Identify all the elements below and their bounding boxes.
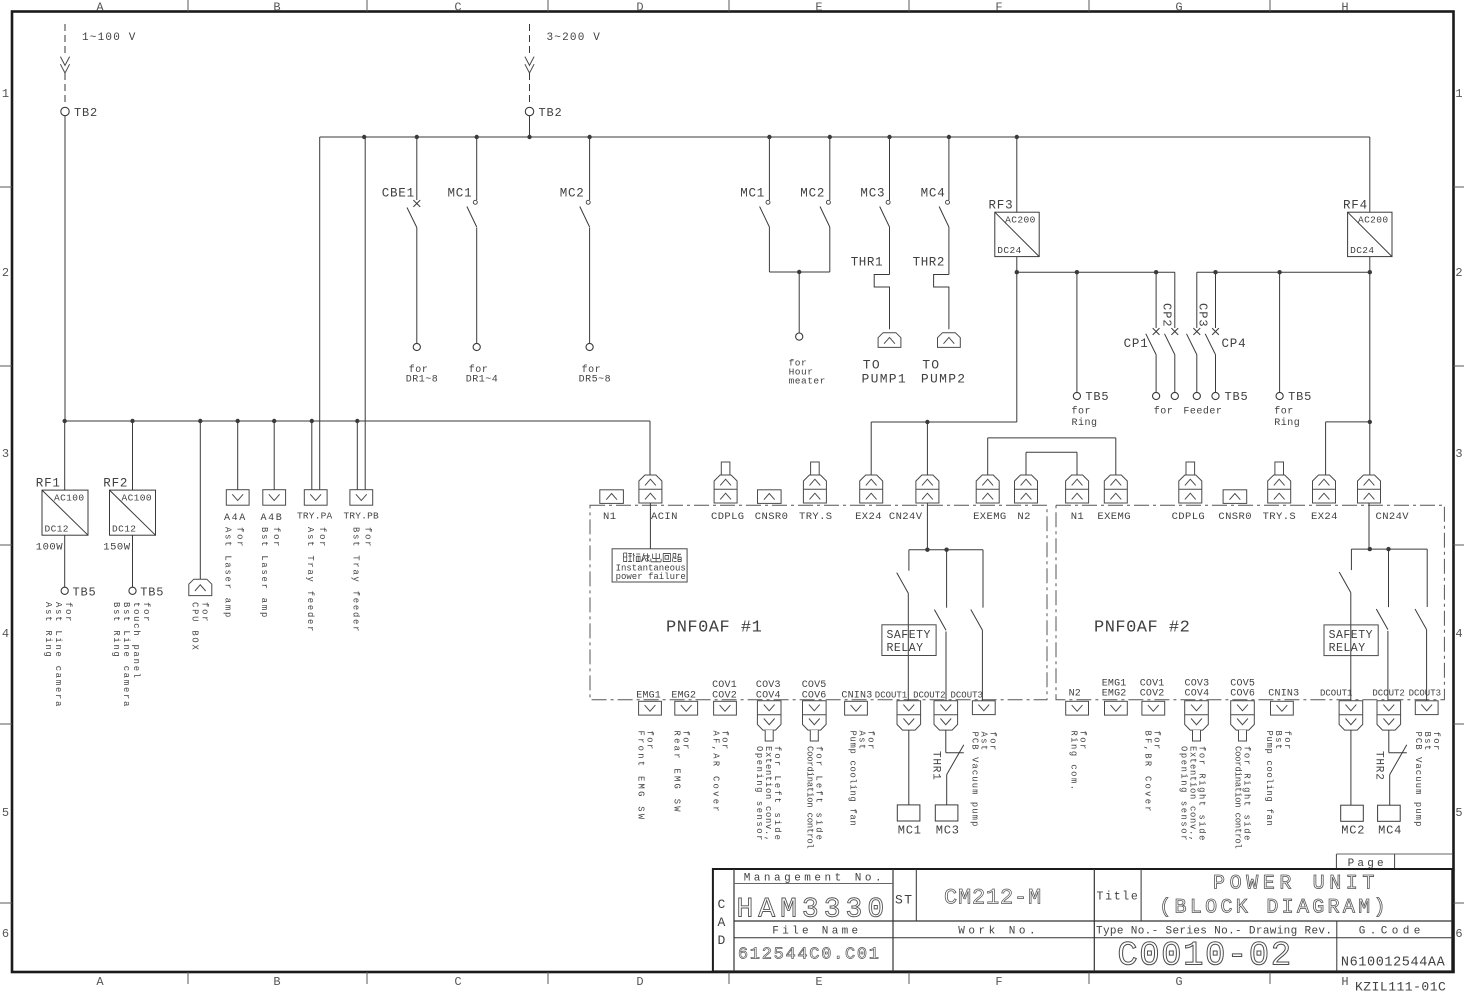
svg-text:MC1: MC1 xyxy=(740,186,765,200)
svg-text:PCB Vacuum pump: PCB Vacuum pump xyxy=(1413,732,1423,828)
svg-text:3~200 V: 3~200 V xyxy=(547,32,602,44)
svg-text:RELAY: RELAY xyxy=(887,642,924,655)
svg-text:DR5~8: DR5~8 xyxy=(579,375,612,386)
svg-text:for: for xyxy=(200,602,210,623)
connector EMG1/EMG2 (PNF#2) xyxy=(1102,678,1128,715)
svg-text:TRY.PB: TRY.PB xyxy=(344,511,380,522)
svg-text:B: B xyxy=(273,1,280,15)
svg-text:COV4: COV4 xyxy=(1185,689,1210,700)
svg-text:F: F xyxy=(995,975,1002,989)
svg-text:THR1: THR1 xyxy=(851,256,883,270)
wire RF4 output down to CN24V xyxy=(1369,257,1371,475)
wire RF3 to EX24/CN24V of PNF0AF#1 xyxy=(871,420,1017,550)
connector A4B for Bst Laser amp xyxy=(259,421,286,619)
wire CN24V internal bus (PNF#2) xyxy=(1351,503,1427,551)
breaker CP2 xyxy=(1160,272,1179,399)
svg-text:150W: 150W xyxy=(103,542,130,554)
svg-text:TB5: TB5 xyxy=(1225,390,1249,404)
svg-text:COV2: COV2 xyxy=(712,690,737,701)
svg-text:for: for xyxy=(317,527,327,548)
svg-text:4: 4 xyxy=(2,627,9,641)
connector N1 (PNF#2) xyxy=(1066,475,1089,523)
svg-text:DCOUT2: DCOUT2 xyxy=(1372,689,1404,699)
svg-text:EX24: EX24 xyxy=(1311,511,1338,523)
svg-text:Work No.: Work No. xyxy=(958,926,1039,938)
connector EMG2 (PNF#1) xyxy=(671,690,697,814)
svg-text:DR1~8: DR1~8 xyxy=(406,375,439,386)
svg-text:100W: 100W xyxy=(36,542,63,554)
connector CNSR0 (PNF0AF#1) xyxy=(755,490,789,523)
wire EXEMG bridge between PNF boxes xyxy=(988,438,1116,475)
svg-text:Page: Page xyxy=(1348,858,1387,870)
svg-text:E: E xyxy=(815,975,822,989)
svg-text:TB5: TB5 xyxy=(140,585,164,599)
value C0010-02 xyxy=(1117,938,1292,976)
svg-text:CP3: CP3 xyxy=(1195,303,1209,328)
svg-text:PUMP2: PUMP2 xyxy=(921,371,967,386)
label Title xyxy=(1097,891,1140,904)
svg-text:G: G xyxy=(1175,975,1182,989)
svg-text:Coordination control: Coordination control xyxy=(1233,746,1243,849)
svg-text:PNF0AF #1: PNF0AF #1 xyxy=(666,619,762,638)
svg-text:D: D xyxy=(636,975,643,989)
safety relay contact 1 (PNF#1) to DCOUT1 xyxy=(897,550,909,701)
svg-text:MC2: MC2 xyxy=(800,186,825,200)
svg-text:CN24V: CN24V xyxy=(1376,511,1410,523)
svg-text:CP1: CP1 xyxy=(1124,337,1149,351)
connector COV3/COV4 (PNF#2) xyxy=(1179,678,1210,842)
connector ACIN (PNF0AF#1) xyxy=(639,475,678,523)
svg-text:RF1: RF1 xyxy=(36,477,61,491)
connector DCOUT2 (PNF#1) xyxy=(913,690,958,730)
svg-text:DC12: DC12 xyxy=(112,524,136,535)
label for CPU BOX xyxy=(190,602,210,652)
svg-text:CP4: CP4 xyxy=(1222,337,1247,351)
svg-text:5: 5 xyxy=(2,806,9,820)
wire RF1 to TB5 + terminal xyxy=(61,535,96,599)
svg-text:A4B: A4B xyxy=(261,513,284,524)
svg-text:MC3: MC3 xyxy=(860,186,885,200)
connector DCOUT3 (PNF#2) xyxy=(1409,689,1441,828)
svg-text:C0010-02: C0010-02 xyxy=(1117,938,1292,976)
svg-text:TRY.S: TRY.S xyxy=(799,511,833,523)
svg-text:MC1: MC1 xyxy=(898,824,922,838)
svg-text:Front EMG SW: Front EMG SW xyxy=(636,731,646,822)
svg-text:for: for xyxy=(235,527,245,548)
label for touch panel / Bst Line camera / Bst Ring xyxy=(111,602,151,708)
connector DCOUT3 (PNF#1) xyxy=(951,690,998,827)
label TB5 for Feeder xyxy=(1154,390,1249,417)
svg-text:MC2: MC2 xyxy=(1341,824,1365,838)
svg-text:D: D xyxy=(718,933,726,948)
svg-text:DCOUT1: DCOUT1 xyxy=(1320,689,1352,699)
connector N2 (PNF0AF#1) xyxy=(1015,475,1038,523)
svg-text:F: F xyxy=(995,1,1002,15)
connector EXEMG (PNF0AF#1) xyxy=(973,475,1007,523)
svg-text:N1: N1 xyxy=(603,511,616,523)
svg-text:N1: N1 xyxy=(1071,511,1084,523)
svg-text:N2: N2 xyxy=(1017,511,1030,523)
terminal TB5 for Ring (right) xyxy=(1274,272,1312,429)
svg-text:Ast Laser amp: Ast Laser amp xyxy=(223,527,233,619)
svg-text:TB5: TB5 xyxy=(1085,390,1109,404)
contactor MC3 + thermal THR1 to PUMP1 xyxy=(851,137,907,386)
connector CDPLG (PNF0AF#1) xyxy=(711,462,745,523)
svg-text:Ring com.: Ring com. xyxy=(1069,731,1079,792)
svg-text:H: H xyxy=(1341,1,1348,15)
svg-text:TRY.PA: TRY.PA xyxy=(297,511,333,522)
safety relay contact 1 (PNF#2) to DCOUT1 xyxy=(1339,549,1351,701)
breaker CP1 xyxy=(1124,272,1160,399)
svg-text:N610012544AA: N610012544AA xyxy=(1341,956,1446,971)
svg-text:CDPLG: CDPLG xyxy=(711,511,745,523)
svg-text:CP2: CP2 xyxy=(1160,303,1174,328)
coil MC1 from DCOUT1 (PNF#1) xyxy=(897,730,922,837)
svg-text:TRY.S: TRY.S xyxy=(1263,511,1297,523)
svg-text:Bst Ring: Bst Ring xyxy=(111,602,121,659)
svg-text:E: E xyxy=(815,1,822,15)
svg-text:DCOUT3: DCOUT3 xyxy=(951,690,983,700)
safety relay contact 3 (PNF#2) to DCOUT3 xyxy=(1415,549,1427,701)
svg-text:Feeder: Feeder xyxy=(1183,406,1222,418)
svg-text:CNIN3: CNIN3 xyxy=(1268,689,1299,700)
wire TB2(100V) down to AC100 bus xyxy=(64,116,66,421)
svg-text:for: for xyxy=(63,602,73,623)
svg-text:4: 4 xyxy=(1455,627,1462,641)
svg-text:Pump cooling fan: Pump cooling fan xyxy=(1264,731,1274,827)
rectifier RF2 AC100/DC12 xyxy=(103,477,155,554)
label CAD xyxy=(718,897,726,948)
svg-text:AC100: AC100 xyxy=(121,493,152,504)
connector TRY.PB for Bst Tray feeder xyxy=(344,137,380,633)
svg-text:1: 1 xyxy=(1455,87,1462,101)
svg-text:H: H xyxy=(1341,975,1348,989)
svg-text:Opening sensor: Opening sensor xyxy=(1179,746,1189,842)
wire 200V horizontal bus xyxy=(320,136,1370,138)
contactor MC2 for DR5~8 xyxy=(560,137,611,386)
instantaneous power failure detection box xyxy=(612,503,687,582)
svg-text:Ring: Ring xyxy=(1072,417,1098,429)
wire AC100 bus down to RF2 xyxy=(132,421,134,490)
rectifier RF4 AC200/DC24 xyxy=(1343,199,1392,257)
svg-text:N2: N2 xyxy=(1069,689,1081,700)
svg-text:612544C0.C01: 612544C0.C01 xyxy=(738,946,881,965)
wire RF3 output down xyxy=(1016,257,1018,422)
label ST xyxy=(895,893,914,908)
connector EX24 (PNF0AF#1) xyxy=(855,475,883,523)
connector TRY.PA for Ast Tray feeder xyxy=(297,137,333,633)
svg-text:for: for xyxy=(141,602,151,623)
contactor MC1 for DR1~4 xyxy=(448,137,499,386)
svg-text:2: 2 xyxy=(2,266,9,280)
connector COV3/COV4 (PNF#1) xyxy=(754,680,782,842)
connector N2 (PNF#2) xyxy=(1066,689,1089,792)
connector CNSR0 (PNF#2) xyxy=(1218,490,1252,523)
svg-text:EX24: EX24 xyxy=(855,511,882,523)
svg-text:CDPLG: CDPLG xyxy=(1172,511,1206,523)
svg-text:6: 6 xyxy=(1455,927,1462,941)
svg-text:1: 1 xyxy=(2,87,9,101)
wire AC100 bus down to ACIN xyxy=(649,421,651,475)
svg-text:RF3: RF3 xyxy=(989,199,1014,213)
svg-text:Coordination control: Coordination control xyxy=(805,746,815,849)
svg-text:MC3: MC3 xyxy=(936,824,960,838)
svg-text:Pump cooling fan: Pump cooling fan xyxy=(848,731,858,827)
svg-text:TB2: TB2 xyxy=(539,106,563,120)
svg-text:BF,BR Cover: BF,BR Cover xyxy=(1143,731,1153,814)
value 612544C0.C01 xyxy=(738,946,881,965)
wire AC100 horizontal bus xyxy=(65,420,650,422)
value KZIL111-01C xyxy=(1355,980,1446,992)
Page box xyxy=(1336,854,1452,870)
svg-text:3: 3 xyxy=(1455,447,1462,461)
label Type-Series-Drawing xyxy=(1096,926,1332,938)
wire to hour meter terminal xyxy=(769,270,829,387)
coil MC2 from DCOUT1 (PNF#2) xyxy=(1341,730,1366,837)
svg-text:6: 6 xyxy=(2,927,9,941)
svg-text:HAM3330: HAM3330 xyxy=(737,895,890,926)
label PNF0AF #1 xyxy=(666,619,762,638)
connector COV5/COV6 (PNF#2) xyxy=(1230,678,1255,848)
svg-text:for: for xyxy=(271,527,281,548)
connector DCOUT1 (PNF#1) xyxy=(875,690,921,730)
value BLOCK DIAGRAM xyxy=(1159,897,1389,920)
svg-text:TB5: TB5 xyxy=(73,585,97,599)
svg-text:COV4: COV4 xyxy=(756,690,781,701)
supply feed 1~100V with terminal TB2 xyxy=(60,24,136,120)
rectifier RF1 AC100/DC12 xyxy=(36,477,88,554)
contactor MC4 + thermal THR2 to PUMP2 xyxy=(913,137,967,386)
svg-text:MC1: MC1 xyxy=(448,186,473,200)
svg-text:ST: ST xyxy=(895,893,914,908)
value CM212-M xyxy=(944,886,1042,911)
connector TRY.S (PNF0AF#1) xyxy=(799,462,833,523)
junction dots on AC100 bus xyxy=(62,419,359,423)
svg-text:B: B xyxy=(273,975,280,989)
svg-text:A: A xyxy=(718,915,726,930)
svg-text:MC2: MC2 xyxy=(560,186,585,200)
SAFETY RELAY box (PNF#2) xyxy=(1324,625,1378,656)
svg-text:CBE1: CBE1 xyxy=(382,186,415,200)
svg-text:Title: Title xyxy=(1097,891,1140,904)
svg-text:POWER UNIT: POWER UNIT xyxy=(1213,873,1379,896)
svg-text:THR2: THR2 xyxy=(913,256,945,270)
svg-text:THR2: THR2 xyxy=(1373,751,1385,781)
safety relay contact 2 (PNF#2) to DCOUT2 xyxy=(1376,549,1388,701)
connector N1 (PNF0AF#1) xyxy=(600,490,624,523)
title block grid xyxy=(713,869,1452,971)
svg-text:AC100: AC100 xyxy=(54,493,85,504)
svg-text:MC4: MC4 xyxy=(921,186,946,200)
supply feed 3~200V with terminal TB2 xyxy=(525,24,601,120)
svg-text:EMG2: EMG2 xyxy=(671,690,696,701)
svg-text:DCOUT3: DCOUT3 xyxy=(1409,689,1441,699)
connector EXEMG (PNF#2) xyxy=(1097,475,1131,523)
svg-text:3: 3 xyxy=(2,447,9,461)
svg-text:5: 5 xyxy=(1455,806,1462,820)
connector A4A for Ast Laser amp xyxy=(223,421,250,619)
wire DC24 bus left segment xyxy=(1017,271,1175,273)
svg-text:THR1: THR1 xyxy=(930,751,942,781)
svg-text:Bst Laser amp: Bst Laser amp xyxy=(259,527,269,619)
svg-text:RELAY: RELAY xyxy=(1329,642,1366,655)
svg-text:Management No.: Management No. xyxy=(744,873,885,885)
svg-text:CN24V: CN24V xyxy=(889,511,923,523)
breaker CP4 xyxy=(1205,272,1246,399)
safety relay contact 2 (PNF#1) to DCOUT2 xyxy=(934,550,946,701)
wire AC100 bus down to CPU BOX connector xyxy=(199,421,201,579)
svg-text:A4A: A4A xyxy=(224,513,247,524)
PNF0AF #2 dashed enclosure xyxy=(1056,505,1444,700)
svg-text:(BLOCK DIAGRAM): (BLOCK DIAGRAM) xyxy=(1159,897,1389,920)
label Management No. xyxy=(744,873,885,885)
svg-text:C: C xyxy=(718,897,726,912)
connector COV5/COV6 (PNF#1) xyxy=(802,680,827,849)
connector for CPU BOX xyxy=(189,579,212,595)
svg-text:Ast Ring: Ast Ring xyxy=(43,602,53,659)
svg-text:Opening sensor: Opening sensor xyxy=(754,746,764,842)
svg-text:EXEMG: EXEMG xyxy=(973,511,1007,523)
svg-text:Rear EMG SW: Rear EMG SW xyxy=(672,731,682,814)
svg-text:for: for xyxy=(1072,406,1092,418)
svg-text:G.Code: G.Code xyxy=(1359,926,1425,938)
svg-text:1~100 V: 1~100 V xyxy=(82,32,137,44)
svg-text:COV6: COV6 xyxy=(802,690,827,701)
svg-text:Ast Tray feeder: Ast Tray feeder xyxy=(305,527,315,633)
svg-text:G: G xyxy=(1175,1,1182,15)
contactor MC1 (hour meter) xyxy=(740,137,770,272)
connector COV1/COV2 (PNF#2) xyxy=(1140,678,1165,814)
svg-text:RF4: RF4 xyxy=(1343,199,1368,213)
connector EX24 (PNF#2) xyxy=(1311,475,1338,523)
svg-text:PNF0AF #2: PNF0AF #2 xyxy=(1094,619,1190,638)
svg-text:power failure: power failure xyxy=(616,572,686,582)
svg-text:A: A xyxy=(96,975,104,989)
wire N2 to N1 bridge between PNF boxes xyxy=(1026,452,1077,475)
svg-text:RF2: RF2 xyxy=(103,477,128,491)
svg-text:touch panel: touch panel xyxy=(131,602,141,680)
safety relay contact 3 (PNF#1) to DCOUT3 xyxy=(971,550,983,701)
svg-text:for: for xyxy=(1274,406,1294,418)
connector EMG1 (PNF#1) xyxy=(636,690,662,821)
svg-text:C: C xyxy=(454,975,461,989)
svg-text:CNSR0: CNSR0 xyxy=(1218,511,1252,523)
breaker CBE1 for DR1~8 xyxy=(382,137,439,386)
label G.Code xyxy=(1359,926,1425,938)
value N610012544AA xyxy=(1341,956,1446,971)
wire 200V bus down to RF3 xyxy=(1016,137,1018,212)
svg-text:AC200: AC200 xyxy=(1358,215,1389,226)
svg-text:ACIN: ACIN xyxy=(651,511,678,523)
junction dots on 200V bus xyxy=(362,135,1019,139)
svg-text:DCOUT1: DCOUT1 xyxy=(875,690,907,700)
wire TB2(200V) down to 200V bus xyxy=(529,116,531,137)
PNF0AF #1 dashed enclosure xyxy=(590,505,1047,700)
wire CN24V internal bus (PNF#1) xyxy=(909,548,983,552)
svg-text:EMG2: EMG2 xyxy=(1102,689,1127,700)
rectifier RF3 AC200/DC24 xyxy=(989,199,1040,257)
svg-text:DC24: DC24 xyxy=(997,245,1021,256)
svg-text:CNIN3: CNIN3 xyxy=(841,690,872,701)
connector CN24V (PNF0AF#1) xyxy=(889,475,939,523)
svg-text:CNSR0: CNSR0 xyxy=(755,511,789,523)
svg-text:SAFETY: SAFETY xyxy=(1329,629,1373,642)
svg-text:Ring: Ring xyxy=(1274,417,1300,429)
contactor MC2 (hour meter) xyxy=(800,137,830,272)
svg-text:Type No.- Series No.- Drawing: Type No.- Series No.- Drawing Rev. xyxy=(1096,926,1332,938)
label File Name xyxy=(772,926,861,938)
connector CDPLG (PNF#2) xyxy=(1172,462,1206,523)
wire DC24 bus right segment xyxy=(1197,271,1370,273)
svg-text:PUMP1: PUMP1 xyxy=(862,371,908,386)
junction dots on DC24 bus xyxy=(1015,270,1372,274)
SAFETY RELAY box (PNF#1) xyxy=(882,625,936,656)
svg-text:Ast Line camera: Ast Line camera xyxy=(53,602,63,708)
svg-text:MC4: MC4 xyxy=(1378,824,1402,838)
thermal THR1 + coil MC3 from DCOUT2 (PNF#1) xyxy=(930,730,964,837)
svg-text:Bst Line camera: Bst Line camera xyxy=(121,602,131,708)
svg-text:DC24: DC24 xyxy=(1350,245,1374,256)
svg-text:PCB Vacuum pump: PCB Vacuum pump xyxy=(970,732,980,828)
svg-text:File Name: File Name xyxy=(772,926,861,938)
terminal TB5 for Ring (left) xyxy=(1072,272,1110,429)
svg-text:for: for xyxy=(1154,406,1174,418)
connector COV1/COV2 (PNF#1) xyxy=(711,680,737,814)
svg-text:EXEMG: EXEMG xyxy=(1097,511,1131,523)
svg-text:DC12: DC12 xyxy=(45,524,69,535)
connector CN24V (PNF#2) xyxy=(1358,475,1410,523)
svg-text:C: C xyxy=(454,1,461,15)
connector DCOUT1 (PNF#2) xyxy=(1320,689,1363,731)
label PNF0AF #2 xyxy=(1094,619,1190,638)
svg-text:TB5: TB5 xyxy=(1288,390,1312,404)
connector TRY.S (PNF#2) xyxy=(1263,462,1297,523)
connector CNIN3 (PNF#1) xyxy=(841,690,875,826)
svg-text:for: for xyxy=(362,527,372,548)
svg-text:KZIL111-01C: KZIL111-01C xyxy=(1355,980,1446,992)
svg-text:CPU BOX: CPU BOX xyxy=(190,602,200,652)
svg-text:COV2: COV2 xyxy=(1140,689,1165,700)
svg-text:A: A xyxy=(96,1,104,15)
breaker CP3 xyxy=(1187,272,1210,399)
value POWER UNIT xyxy=(1213,873,1379,896)
svg-text:COV6: COV6 xyxy=(1230,689,1255,700)
wire AC100 bus down to RF1 xyxy=(64,421,66,490)
svg-text:2: 2 xyxy=(1455,266,1462,280)
svg-text:meater: meater xyxy=(789,376,826,387)
svg-text:TB2: TB2 xyxy=(74,106,98,120)
svg-text:EMG1: EMG1 xyxy=(636,690,661,701)
wire RF2 to TB5 + terminal xyxy=(129,535,164,599)
svg-text:D: D xyxy=(636,1,643,15)
value HAM3330 xyxy=(737,895,890,926)
svg-text:DR1~4: DR1~4 xyxy=(466,375,499,386)
thermal THR2 + coil MC4 from DCOUT2 (PNF#2) xyxy=(1373,730,1407,837)
wire RF4 branch to EX24 of PNF0AF#2 xyxy=(1326,420,1372,475)
svg-text:SAFETY: SAFETY xyxy=(887,629,931,642)
svg-text:CM212-M: CM212-M xyxy=(944,886,1042,911)
svg-text:AF,AR Cover: AF,AR Cover xyxy=(711,731,721,814)
svg-text:DCOUT2: DCOUT2 xyxy=(913,690,945,700)
svg-text:Bst Tray feeder: Bst Tray feeder xyxy=(350,527,360,633)
label Work No. xyxy=(958,926,1039,938)
svg-text:AC200: AC200 xyxy=(1005,215,1036,226)
label for Ast Line camera / Ast Ring xyxy=(43,602,73,708)
wire 200V bus down to RF4 xyxy=(1369,137,1371,212)
connector CNIN3 (PNF#2) xyxy=(1264,689,1299,827)
connector DCOUT2 (PNF#2) xyxy=(1372,689,1404,731)
